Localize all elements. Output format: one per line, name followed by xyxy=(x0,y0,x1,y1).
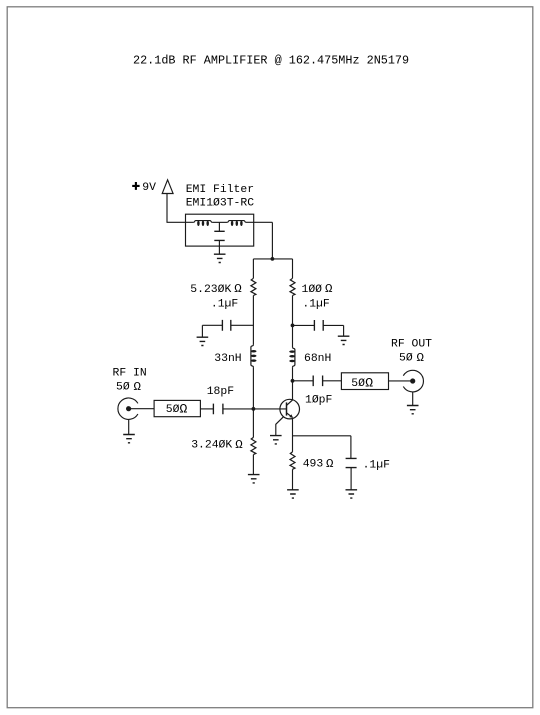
wire emitter down xyxy=(292,419,294,452)
svg-text:Ω: Ω xyxy=(180,401,188,416)
wire +9V vertical xyxy=(166,194,168,223)
wire C1 ground lead xyxy=(201,325,203,337)
svg-text:5Ø: 5Ø xyxy=(116,382,130,394)
svg-text:3.24ØK: 3.24ØK xyxy=(191,440,232,452)
connector J1 RF IN xyxy=(118,398,138,419)
capacitor EMI C xyxy=(214,231,224,240)
svg-text:5Ø: 5Ø xyxy=(399,353,413,365)
junction collector bypass node xyxy=(291,324,295,328)
ground Q1 case xyxy=(270,436,282,444)
wire C1 to ground corner xyxy=(202,324,222,326)
ground C1 xyxy=(197,337,209,345)
wire supply bus xyxy=(253,258,292,260)
svg-text:493: 493 xyxy=(303,459,324,471)
wire RF IN to source box xyxy=(129,408,155,410)
wire Q1 case to ground xyxy=(276,417,284,436)
ground RF OUT xyxy=(407,406,419,414)
junction collector node xyxy=(291,379,295,383)
inductor EMI L-right xyxy=(227,221,246,226)
svg-text:Ω: Ω xyxy=(326,457,334,471)
svg-text:.1µF: .1µF xyxy=(363,459,391,471)
connector J2 RF OUT xyxy=(403,370,423,392)
svg-text:9V: 9V xyxy=(142,182,156,194)
svg-text:18pF: 18pF xyxy=(207,386,235,398)
EMI filter module FL1 box xyxy=(186,214,254,246)
junction supply bus xyxy=(271,257,275,261)
capacitor C6 .1uF emitter xyxy=(346,458,357,467)
capacitor C3 18pF xyxy=(213,404,223,415)
wire EMI mid xyxy=(212,221,227,223)
svg-text:Ω: Ω xyxy=(325,282,333,296)
svg-text:5Ø: 5Ø xyxy=(166,404,180,416)
svg-text:EMI Filter: EMI Filter xyxy=(186,184,254,196)
capacitor C1 .1uF xyxy=(222,320,230,331)
inductor L1 33nH xyxy=(251,345,257,368)
wire box to C3 xyxy=(200,408,213,410)
wire RF IN connector to ground xyxy=(128,419,130,434)
wire R4 to ground xyxy=(292,469,294,490)
ground C6 xyxy=(346,490,358,498)
source box 50 ohm RF IN xyxy=(154,400,200,416)
wire C6 to ground xyxy=(350,468,352,490)
wire RF OUT to ground xyxy=(412,392,414,406)
inductor EMI L-left xyxy=(194,221,213,226)
capacitor C4 10pF xyxy=(313,376,322,387)
wire node to C1 xyxy=(231,324,254,326)
wire R2 to ground xyxy=(252,455,254,475)
load box 50 ohm RF OUT xyxy=(341,373,388,390)
svg-text:33nH: 33nH xyxy=(214,353,241,365)
wire base xyxy=(253,408,286,410)
wire C4 to load box xyxy=(323,380,342,382)
svg-text:Ω: Ω xyxy=(235,438,243,452)
svg-text:Ω: Ω xyxy=(417,351,425,365)
ground R2 xyxy=(248,475,260,483)
svg-text:68nH: 68nH xyxy=(304,353,331,365)
resistor R2 3.240K xyxy=(251,437,256,454)
wire C6 top lead xyxy=(350,436,352,459)
svg-text:.1µF: .1µF xyxy=(302,298,330,310)
svg-text:RF OUT: RF OUT xyxy=(391,339,432,351)
wire bus to R1 xyxy=(252,259,254,278)
wire supply drop xyxy=(271,222,273,259)
power symbol +9V triangle xyxy=(162,180,173,194)
wire node to C2 xyxy=(293,324,315,326)
wire L1 to R2 (base rail) xyxy=(252,367,254,437)
ground C2 xyxy=(338,336,350,344)
wire bus to R3 xyxy=(292,259,294,278)
inductor L2 68nH xyxy=(289,347,295,367)
wire EMI cap lead bottom xyxy=(218,240,220,254)
ground EMI filter xyxy=(214,254,226,262)
svg-text:EMI1Ø3T-RC: EMI1Ø3T-RC xyxy=(186,197,255,209)
svg-text:Ω: Ω xyxy=(365,375,373,390)
svg-text:.1µF: .1µF xyxy=(211,298,239,310)
wire L2 to collector node xyxy=(292,367,294,381)
svg-text:Ω: Ω xyxy=(134,380,142,394)
resistor R4 493 xyxy=(290,452,295,469)
wire C2 to ground corner xyxy=(323,324,343,326)
power label +9V xyxy=(132,182,156,194)
junction base node xyxy=(252,407,256,411)
wire emitter node to C6 xyxy=(293,435,351,437)
resistor R3 100 xyxy=(290,278,295,295)
svg-text:RF IN: RF IN xyxy=(113,368,147,380)
svg-text:1ØØ: 1ØØ xyxy=(302,284,323,296)
svg-text:5.23ØK: 5.23ØK xyxy=(190,284,231,296)
capacitor C2 .1uF xyxy=(314,320,323,331)
wire into EMI filter xyxy=(167,221,194,223)
wire C2 ground lead xyxy=(343,325,345,336)
wire EMI cap lead top xyxy=(218,222,220,231)
ground RF IN xyxy=(123,435,135,443)
wire node to C4 xyxy=(293,380,314,382)
wire R3 to L2 xyxy=(292,296,294,348)
transistor Q1 2N5179 xyxy=(280,399,300,419)
svg-text:1ØpF: 1ØpF xyxy=(305,394,333,406)
wire EMI output xyxy=(246,221,273,223)
wire C3 to base node xyxy=(223,408,254,410)
ground R4 xyxy=(287,490,299,498)
wire collector xyxy=(292,381,294,400)
svg-text:22.1dB RF AMPLIFIER @ 162.475M: 22.1dB RF AMPLIFIER @ 162.475MHz 2N5179 xyxy=(133,53,409,67)
wire box to RF OUT connector xyxy=(389,380,411,382)
svg-text:5Ø: 5Ø xyxy=(351,378,365,390)
resistor R1 5.230K xyxy=(251,278,256,295)
wire R1 to L1 xyxy=(252,296,254,345)
svg-text:Ω: Ω xyxy=(234,282,242,296)
